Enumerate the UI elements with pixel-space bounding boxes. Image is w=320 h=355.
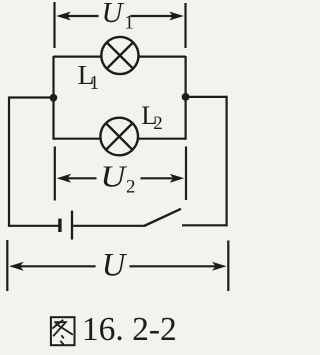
dimension line U2 right segment with right arrow xyxy=(141,174,185,183)
battery B1 positive plate (long thin) xyxy=(71,211,73,240)
svg-text:1: 1 xyxy=(89,72,99,94)
wire: left parallel branch vertical xyxy=(52,56,54,140)
dimension line U1 right segment with right arrow xyxy=(131,12,184,21)
label U1 xyxy=(102,0,134,34)
svg-text:16. 2-2: 16. 2-2 xyxy=(82,311,177,348)
node: left junction dot xyxy=(50,94,58,102)
svg-text:U: U xyxy=(102,248,128,284)
label U2 xyxy=(100,159,135,197)
wire: bottom branch right xyxy=(138,138,186,140)
wire: top branch right xyxy=(138,55,185,57)
switch S1 blade (open) xyxy=(144,209,181,226)
wire: U2 right extension tick xyxy=(185,147,187,201)
wire: left connector to main loop xyxy=(9,96,54,98)
svg-text:U: U xyxy=(100,159,127,193)
wire: U2 left extension tick xyxy=(54,147,56,201)
wire: bottom branch left xyxy=(54,138,102,140)
wire: left main loop (vertical + bottom run to battery) xyxy=(9,97,59,226)
svg-text:1: 1 xyxy=(124,13,134,34)
wire: right connector to main loop xyxy=(186,96,227,98)
dimension line U left segment with left arrow xyxy=(9,262,96,271)
wire: right parallel branch vertical xyxy=(185,56,187,140)
node: right junction dot xyxy=(182,93,190,101)
svg-text:U: U xyxy=(102,0,125,29)
dimension line U1 left segment with left arrow xyxy=(56,12,98,21)
wire: U1 right extension tick xyxy=(184,3,186,48)
label U xyxy=(102,248,128,284)
dimension line U right segment with right arrow xyxy=(130,262,227,271)
lamp L2 xyxy=(100,118,138,156)
wire: top branch left xyxy=(54,55,102,57)
lamp L1 xyxy=(101,37,138,74)
wire: U left extension tick xyxy=(6,240,8,291)
dimension line U2 left segment with left arrow xyxy=(57,174,97,183)
wire: U1 left extension tick xyxy=(53,2,55,48)
label L2 xyxy=(141,100,163,134)
wire: U right extension tick xyxy=(227,241,229,292)
svg-text:2: 2 xyxy=(126,177,136,198)
wire: right main loop vertical xyxy=(226,96,228,227)
battery B1 negative plate (short thick) xyxy=(58,219,61,232)
caption: figure number 16.2-2 xyxy=(82,311,177,348)
label L1 xyxy=(78,59,100,94)
caption: Chinese character 图 (drawn) xyxy=(51,317,75,345)
wire: switch fixed contact side xyxy=(182,224,227,226)
svg-text:2: 2 xyxy=(153,113,163,134)
wire: battery to switch pivot xyxy=(73,225,144,227)
